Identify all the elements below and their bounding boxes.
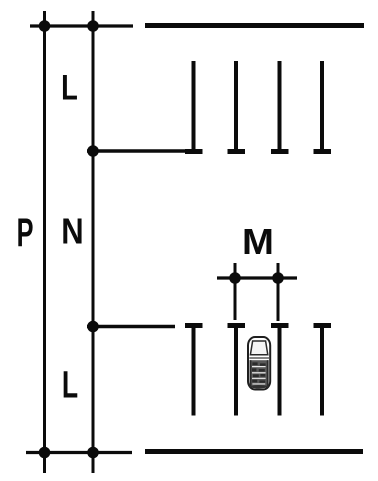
parking stall divider top row 2 xyxy=(228,61,246,152)
label L top xyxy=(61,68,78,107)
node dot bottom-right xyxy=(87,447,99,459)
node dot top-right xyxy=(87,20,99,32)
svg-text:M: M xyxy=(242,221,274,262)
dimension M right extension line xyxy=(277,263,280,321)
svg-text:P: P xyxy=(17,211,34,255)
label M xyxy=(242,221,274,262)
node dot middle-upper xyxy=(87,145,99,157)
parking stall divider top row 1 xyxy=(185,61,203,152)
dimension M left extension line xyxy=(234,263,237,320)
parking stall divider bottom row 3 xyxy=(271,326,289,416)
wire: upper aisle edge line at L/N boundary xyxy=(87,149,187,152)
wire: bottom horizontal dimension line xyxy=(26,451,132,454)
parking stall divider top row 3 xyxy=(271,61,289,152)
node dot M left xyxy=(229,272,241,284)
parking stall divider bottom row 1 xyxy=(185,326,203,416)
wire: left vertical dimension line P xyxy=(43,11,46,473)
node dot bottom-left xyxy=(39,447,51,459)
svg-text:L: L xyxy=(62,363,78,406)
parking stall divider bottom row 2 xyxy=(228,326,246,416)
dimension M horizontal line xyxy=(217,276,297,279)
svg-text:L: L xyxy=(61,68,78,107)
label N xyxy=(61,211,83,252)
car (top view, parked in stall) xyxy=(248,337,270,390)
svg-text:N: N xyxy=(61,211,83,252)
wire: top horizontal dimension line xyxy=(30,24,133,27)
wire: bottom thick street line xyxy=(145,449,363,454)
node dot top-left xyxy=(39,20,51,32)
node dot middle-lower xyxy=(87,321,99,333)
wire: second vertical line (lot edge) xyxy=(92,11,95,473)
label P xyxy=(17,211,34,255)
wire: lower aisle edge line at N/L boundary xyxy=(87,325,175,328)
label L bottom xyxy=(62,363,78,406)
parking stall divider top row 4 xyxy=(314,61,332,152)
node dot M right xyxy=(272,272,284,284)
wire: top thick street line xyxy=(145,23,364,28)
parking stall divider bottom row 4 xyxy=(314,326,332,416)
